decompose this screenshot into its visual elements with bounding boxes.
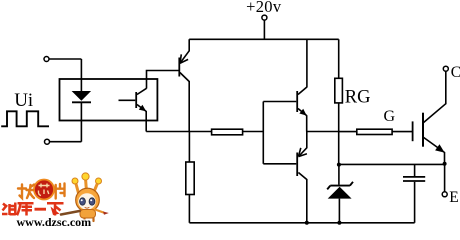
wire (drive line): [146, 131, 263, 133]
wire: [147, 71, 179, 89]
wire: [444, 164, 446, 192]
transistor Q1: [178, 58, 180, 77]
wire (bottom return rail): [189, 222, 414, 224]
wire: [338, 103, 340, 165]
svg-text:C: C: [451, 64, 460, 81]
resistor R3: [357, 129, 392, 134]
wire: [145, 111, 147, 132]
watermark: dzsc.com logo: [2, 173, 109, 229]
wire (emitter node): [339, 163, 445, 165]
svg-text:+20v: +20v: [246, 0, 282, 16]
optocoupler U1 LED: [72, 91, 92, 101]
wire (gate line): [339, 131, 412, 133]
resistor R1: [186, 162, 194, 195]
wire (base tie): [262, 102, 264, 164]
wire: [188, 132, 190, 163]
junction: [443, 162, 447, 166]
transistor Q3: [263, 163, 296, 165]
junction: [337, 163, 341, 167]
terminal C: [443, 66, 448, 71]
mascot: [51, 173, 109, 221]
wire: [49, 59, 81, 91]
IGBT VT emitter: [423, 137, 445, 164]
power rail +20V: [189, 38, 339, 40]
resistor R2: [212, 129, 243, 135]
svg-text:G: G: [384, 108, 396, 125]
IGBT VT collector: [423, 71, 446, 123]
+20V terminal: [262, 15, 267, 20]
junction: [305, 221, 309, 225]
terminal E: [442, 192, 447, 197]
IGBT VT body bar: [422, 113, 424, 147]
resistor RG: [335, 78, 343, 103]
input terminal (bottom): [45, 139, 50, 144]
svg-text:RG: RG: [345, 87, 371, 107]
input square-wave symbol: [1, 111, 49, 126]
transistor Q2: [263, 101, 296, 103]
svg-text:Ui: Ui: [14, 90, 33, 111]
zener diode VZ: [338, 165, 340, 185]
wire (push-pull output): [307, 131, 339, 133]
optocoupler U1 phototransistor: [135, 92, 137, 108]
junction: [337, 221, 341, 225]
svg-text:www.dzsc.com: www.dzsc.com: [17, 215, 92, 228]
capacitor C1: [414, 164, 416, 176]
wire (rail to RG): [338, 39, 340, 78]
svg-text:E: E: [449, 189, 458, 206]
optocoupler U1 package box: [60, 79, 158, 121]
input terminal (top): [44, 57, 49, 62]
wire: [50, 102, 82, 141]
IGBT VT gate bar: [412, 121, 414, 141]
